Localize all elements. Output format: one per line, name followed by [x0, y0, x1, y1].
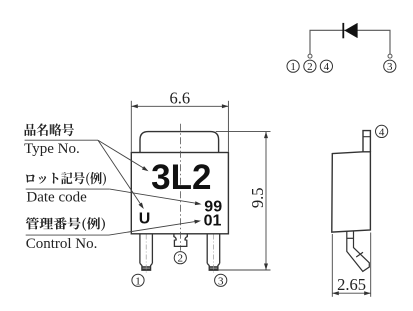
node: terminal circle for pin 3 — [388, 54, 392, 58]
lead pin 1 (front view left) — [140, 234, 153, 274]
svg-text:2: 2 — [178, 253, 184, 265]
leader arrow to 99 — [110, 189, 202, 205]
leader underline from Type No. label — [25, 139, 98, 141]
svg-text:Date code: Date code — [26, 189, 87, 205]
pin label 4 (circuit) — [320, 60, 332, 73]
pin label 3 (front view) — [215, 274, 227, 287]
svg-text:1: 1 — [135, 275, 141, 287]
leader arrow to 01 — [109, 220, 201, 235]
extension line right (2.65) — [370, 233, 372, 297]
svg-text:Type No.: Type No. — [24, 141, 80, 157]
leader underline from Date code label — [26, 188, 110, 190]
diode (cathode left toward pins 1,2,4; anode right toward pin 3) — [343, 23, 357, 38]
package body (front view) — [131, 153, 228, 234]
wire: top horizontal net connecting pins 1-2-4 to diode anode-cathode and pin 3 — [310, 30, 390, 54]
extension line right (6.6) — [227, 101, 229, 152]
pin label 3 (circuit) — [384, 60, 396, 73]
package body (side view) — [332, 152, 371, 232]
svg-text:Control No.: Control No. — [26, 236, 98, 252]
leader arrow to U — [98, 140, 144, 209]
svg-text:1: 1 — [290, 61, 296, 73]
pin label 4 (side view) — [376, 125, 388, 138]
svg-text:4: 4 — [324, 61, 330, 73]
svg-text:9.5: 9.5 — [248, 187, 267, 208]
label kanji: ロット記号(例) — [26, 172, 106, 186]
svg-text:3L2: 3L2 — [151, 158, 211, 197]
leader underline from Control No. label — [26, 234, 109, 236]
dimension 9.5 line with arrows — [264, 132, 268, 270]
node: terminal circle for pins 1,2,4 — [308, 54, 312, 58]
svg-text:01: 01 — [204, 213, 222, 230]
svg-text:2: 2 — [307, 61, 313, 73]
label kanji: 品名略号 — [25, 123, 74, 136]
label kanji: 管理番号(例) — [26, 217, 105, 231]
pin label 2 (circuit) — [304, 60, 316, 73]
svg-text:3: 3 — [387, 61, 393, 73]
package tab (side view) — [363, 131, 370, 152]
package tab (front view) — [140, 132, 219, 153]
lead pin 3 (front view right) — [207, 234, 220, 274]
extension line bottom (9.5) — [218, 269, 271, 271]
lead pin 2 (front view middle, short stub) — [174, 234, 187, 247]
centerline (front view) — [180, 124, 182, 251]
pin label 2 (front view) — [174, 252, 186, 265]
svg-text:2.65: 2.65 — [337, 275, 366, 294]
lead (side view, bent) — [347, 231, 370, 271]
extension line top (9.5) — [216, 131, 271, 133]
dimension 6.6 line with arrows — [131, 104, 228, 108]
svg-text:U: U — [139, 211, 151, 228]
extension line left (2.65) — [331, 234, 333, 297]
tab bend line (side view) — [363, 136, 370, 138]
leader arrow to 3L2 — [98, 140, 149, 171]
svg-text:6.6: 6.6 — [169, 88, 190, 107]
svg-text:4: 4 — [379, 126, 385, 138]
pin label 1 (front view) — [132, 274, 144, 287]
pin label 1 (circuit) — [287, 60, 299, 73]
extension line left (6.6) — [130, 101, 132, 152]
svg-text:3: 3 — [218, 275, 224, 287]
dimension 2.65 line with arrows — [332, 291, 370, 295]
